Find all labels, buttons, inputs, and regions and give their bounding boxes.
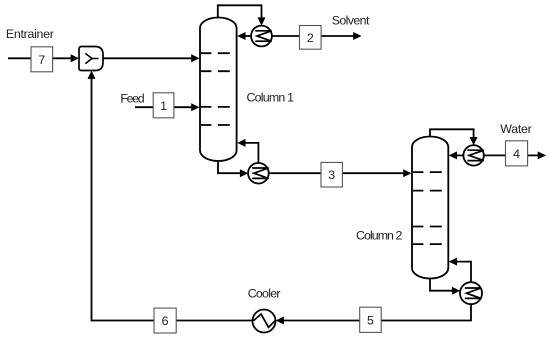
svg-text:Cooler: Cooler <box>248 287 281 301</box>
svg-text:1: 1 <box>160 99 167 113</box>
svg-text:4: 4 <box>513 147 520 161</box>
svg-text:3: 3 <box>328 168 335 182</box>
svg-text:Feed: Feed <box>120 91 144 105</box>
svg-text:Column 2: Column 2 <box>356 228 402 242</box>
svg-text:7: 7 <box>38 53 45 67</box>
svg-text:Solvent: Solvent <box>332 14 370 28</box>
svg-text:2: 2 <box>307 31 314 45</box>
svg-text:Entrainer: Entrainer <box>6 27 54 41</box>
svg-text:Water: Water <box>500 122 532 136</box>
svg-text:6: 6 <box>162 314 169 328</box>
svg-text:5: 5 <box>367 313 374 327</box>
svg-text:Column 1: Column 1 <box>247 90 295 104</box>
